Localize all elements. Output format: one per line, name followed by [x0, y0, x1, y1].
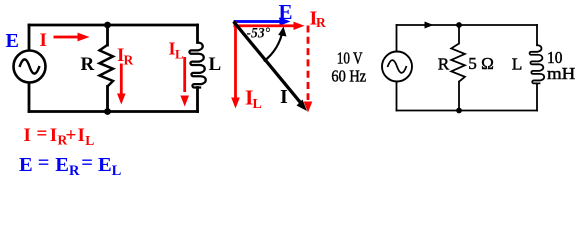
- svg-text:I: I: [40, 30, 47, 51]
- svg-text:L: L: [512, 55, 523, 74]
- svg-text:L: L: [175, 47, 184, 62]
- svg-text:I: I: [50, 125, 57, 146]
- wire R2 branch bottom: [458, 82, 460, 111]
- svg-text:10 V: 10 V: [337, 48, 363, 67]
- arc arrowhead: [278, 27, 286, 37]
- wire R branch top: [106, 25, 109, 45]
- svg-text:I: I: [280, 86, 288, 108]
- arrow I: [54, 33, 90, 42]
- svg-text:E: E: [6, 30, 19, 52]
- phasor E (blue horizontal): [234, 17, 291, 25]
- svg-text:R: R: [316, 15, 326, 30]
- svg-text:5 Ω: 5 Ω: [468, 54, 494, 73]
- angle arc: [264, 30, 283, 61]
- inductor L2: [530, 45, 545, 83]
- equation E = ER = EL: [19, 152, 122, 179]
- svg-text:E: E: [19, 154, 33, 176]
- svg-text:I: I: [78, 125, 85, 146]
- wire R branch bottom: [106, 87, 109, 112]
- junction node top R2: [456, 22, 462, 28]
- wire left: [396, 25, 398, 111]
- AC source V2: [382, 52, 412, 82]
- svg-text:-53°: -53°: [247, 25, 271, 41]
- inductor L: [189, 43, 205, 88]
- arrow IL: [180, 57, 189, 107]
- svg-text:L: L: [209, 54, 222, 75]
- current direction arrow: [425, 22, 434, 29]
- junction node bottom: [104, 108, 111, 115]
- svg-text:L: L: [85, 133, 94, 148]
- svg-text:+: +: [66, 125, 77, 146]
- svg-text:mH: mH: [547, 64, 575, 83]
- svg-text:=: =: [37, 124, 48, 145]
- wire right: [196, 25, 199, 112]
- equation I = IR + IL: [24, 124, 95, 149]
- svg-text:R: R: [69, 163, 80, 179]
- dashed IL (red, translated): [304, 26, 313, 113]
- svg-text:R: R: [124, 53, 134, 68]
- wire bottom: [397, 110, 538, 112]
- svg-text:I: I: [24, 125, 31, 146]
- svg-text:E: E: [279, 0, 293, 24]
- wire left: [28, 25, 31, 112]
- wire top: [29, 24, 198, 27]
- svg-text:=: =: [81, 152, 93, 174]
- svg-text:60 Hz: 60 Hz: [331, 66, 366, 85]
- svg-text:R: R: [81, 54, 95, 75]
- svg-text:E: E: [98, 154, 112, 176]
- svg-text:E: E: [55, 154, 69, 176]
- arrow IR: [117, 64, 126, 105]
- phasor IR (red horizontal): [234, 22, 305, 30]
- phasor I (black diagonal): [232, 20, 307, 111]
- junction node top: [104, 22, 111, 29]
- svg-text:L: L: [112, 163, 122, 179]
- resistor R: [100, 45, 114, 87]
- resistor R2: [451, 44, 465, 82]
- junction node bottom R2: [456, 108, 462, 114]
- svg-text:R: R: [438, 54, 450, 73]
- svg-text:=: =: [38, 152, 50, 174]
- wire R2 branch top: [458, 25, 460, 44]
- phasor IL (red vertical): [231, 22, 240, 109]
- wire bottom: [29, 110, 198, 113]
- wire right: [536, 25, 538, 111]
- AC source V1: [14, 51, 46, 83]
- svg-text:L: L: [253, 97, 262, 112]
- wire top: [397, 24, 538, 26]
